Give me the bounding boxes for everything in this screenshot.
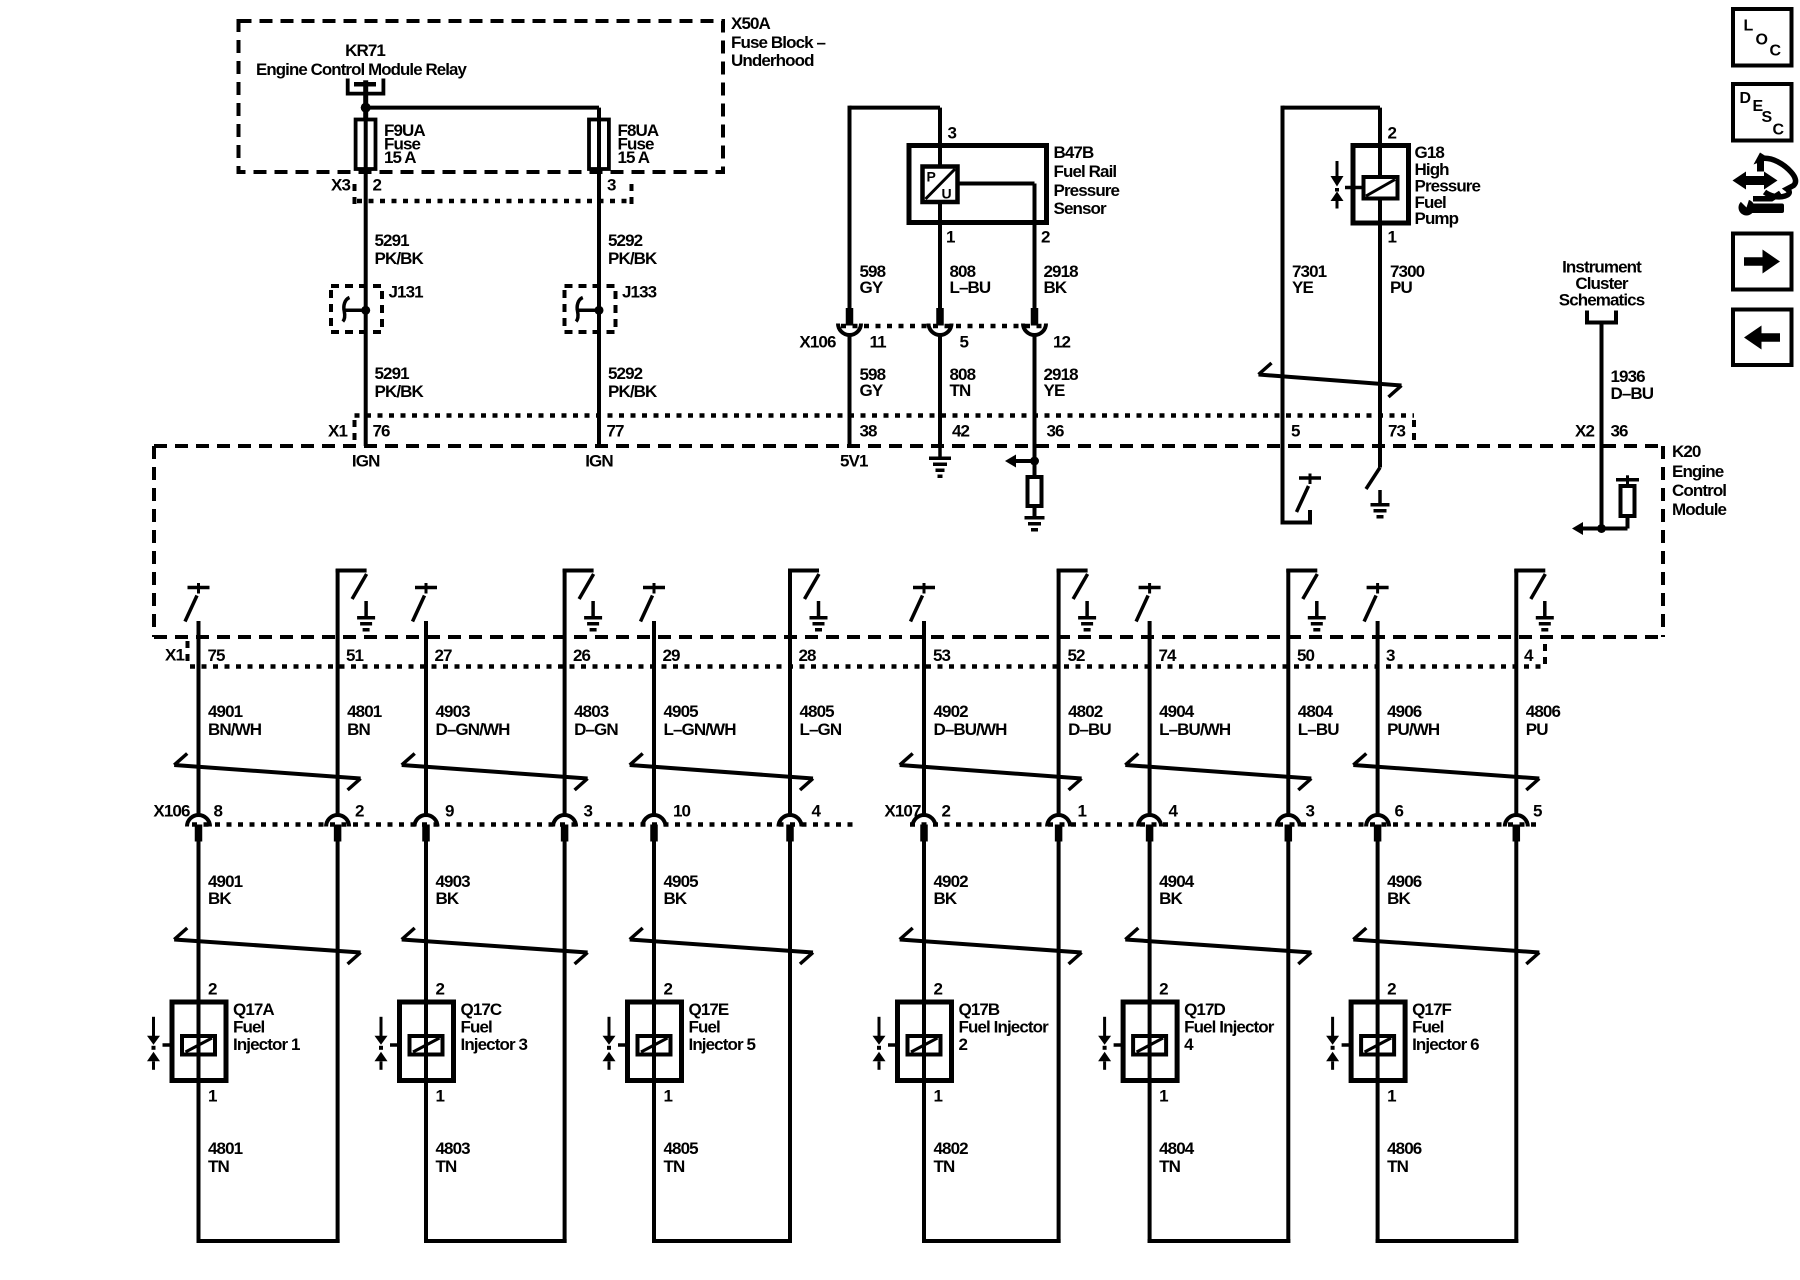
label 5V1 reference voltage <box>840 452 868 471</box>
svg-text:X106: X106 <box>153 801 190 820</box>
icon button LOC <box>1733 9 1792 66</box>
splice J133 <box>565 286 616 332</box>
icon vehicle data link (double arrow + outline + wrench) <box>1733 153 1796 216</box>
connector X3 row (dotted) <box>355 184 632 205</box>
wire pin 2 of pump <box>1378 108 1382 177</box>
svg-text:O: O <box>1756 32 1768 49</box>
svg-text:Fuel: Fuel <box>1412 1018 1444 1037</box>
svg-text:4805: 4805 <box>664 1139 699 1158</box>
relay KR71 Engine Control Module Relay - label <box>256 41 467 79</box>
svg-text:L–BU/WH: L–BU/WH <box>1159 720 1231 739</box>
wire 4803 TN long segment <box>563 842 567 1244</box>
svg-text:1: 1 <box>1159 1086 1168 1105</box>
svg-text:D–BU/WH: D–BU/WH <box>934 720 1008 739</box>
wire 808 TN segment <box>938 336 942 446</box>
off-page bracket <box>1587 311 1616 323</box>
label wire 808 L-BU <box>950 262 991 297</box>
svg-text:2: 2 <box>664 979 673 998</box>
pin 1 label (injector) <box>208 1086 217 1105</box>
wire 4802 TN from injector <box>922 1081 1061 1244</box>
fuse block X50A - Underhood (dashed outline) <box>239 21 724 172</box>
svg-text:2: 2 <box>208 979 217 998</box>
svg-text:Module: Module <box>1672 500 1727 519</box>
svg-text:Injector 6: Injector 6 <box>1412 1035 1479 1054</box>
crossed wires annotation (lower) <box>630 928 813 964</box>
label wire 4903 BK <box>436 872 471 908</box>
svg-text:2: 2 <box>1159 979 1168 998</box>
crossed wires annotation (lower) <box>402 928 588 964</box>
svg-text:Pressure: Pressure <box>1054 181 1120 200</box>
label wire 4801 TN <box>208 1139 243 1176</box>
svg-text:1: 1 <box>664 1086 673 1105</box>
label wire 4805 TN <box>664 1139 699 1176</box>
svg-text:75: 75 <box>208 646 226 665</box>
svg-text:Fuse Block –: Fuse Block – <box>731 33 826 52</box>
ECM injector return switch to ground above pin 51 <box>336 569 376 667</box>
pin 2 label (pump) <box>1388 123 1397 142</box>
svg-text:4804: 4804 <box>1159 1139 1195 1158</box>
connector X107 row (dotted) <box>910 822 1540 827</box>
svg-text:Control: Control <box>1672 481 1726 500</box>
svg-text:4806: 4806 <box>1387 1139 1422 1158</box>
svg-text:4802: 4802 <box>934 1139 969 1158</box>
pin 4 label <box>1169 801 1179 820</box>
label wire 598 GY (upper) <box>860 262 886 297</box>
label IGN (pin 76) <box>352 452 380 471</box>
svg-text:1: 1 <box>1388 227 1397 246</box>
label wire 4806 TN <box>1387 1139 1422 1176</box>
svg-text:15 A: 15 A <box>618 148 650 167</box>
injector Q17D pintle valve arrows <box>1098 1017 1111 1070</box>
svg-text:PU/WH: PU/WH <box>1387 720 1440 739</box>
svg-text:X1: X1 <box>328 421 347 440</box>
pin 5 label <box>960 332 969 351</box>
svg-text:Q17F: Q17F <box>1412 1000 1451 1019</box>
label wire 4803 TN <box>436 1139 471 1176</box>
svg-text:P: P <box>927 169 936 185</box>
injector Q17D (box) <box>1123 1002 1177 1081</box>
injector Q17C solenoid symbol <box>390 1036 443 1055</box>
svg-text:L–GN/WH: L–GN/WH <box>664 720 737 739</box>
svg-text:YE: YE <box>1044 381 1065 400</box>
svg-text:Schematics: Schematics <box>1559 291 1645 310</box>
sensor P/U transducer symbol <box>923 167 958 203</box>
svg-text:BK: BK <box>1387 889 1411 908</box>
pin 3 label <box>948 123 957 142</box>
svg-text:15 A: 15 A <box>384 148 416 167</box>
svg-text:5: 5 <box>960 332 969 351</box>
label wire 4906 BK <box>1387 872 1422 908</box>
label X1 (top) <box>328 421 347 440</box>
label Q17E Fuel Injector 5 <box>689 1000 756 1054</box>
crossed wires annotation (lower) <box>1125 928 1311 964</box>
svg-text:TN: TN <box>664 1157 685 1176</box>
pin 2 label <box>355 801 364 820</box>
wire 2918 YE segment <box>1033 336 1037 461</box>
ECM injector driver (high) above pin 3 <box>1364 583 1389 667</box>
svg-text:9: 9 <box>445 801 454 820</box>
pin 2 label (injector) <box>934 979 943 998</box>
svg-text:2: 2 <box>1041 227 1050 246</box>
svg-text:4: 4 <box>1524 646 1534 665</box>
svg-text:4802: 4802 <box>1068 702 1103 721</box>
injector Q17A solenoid symbol <box>163 1036 216 1055</box>
injector Q17F solenoid symbol <box>1342 1036 1395 1055</box>
svg-text:51: 51 <box>346 646 364 665</box>
pin 2 label (injector) <box>1387 979 1396 998</box>
svg-text:3: 3 <box>948 123 957 142</box>
svg-text:TN: TN <box>950 381 971 400</box>
wire 4905 L–GN/WH segment <box>652 667 656 816</box>
label Instrument Cluster Schematics (off-page reference) <box>1559 258 1645 310</box>
wire 4806 TN from injector <box>1376 1081 1519 1244</box>
ECM pump switch to ground at pin 73 <box>1366 446 1390 517</box>
pin 2 label (injector) <box>208 979 217 998</box>
injector Q17B (box) <box>898 1002 952 1081</box>
svg-text:TN: TN <box>1387 1157 1408 1176</box>
injector Q17A (box) <box>172 1002 226 1081</box>
svg-text:29: 29 <box>663 646 681 665</box>
ECM injector driver (high) above pin 53 <box>911 583 936 667</box>
svg-text:3: 3 <box>1306 801 1315 820</box>
svg-text:36: 36 <box>1047 421 1065 440</box>
svg-text:L: L <box>1744 18 1754 35</box>
label wire 4904 BK <box>1159 872 1195 908</box>
svg-text:Engine Control Module Relay: Engine Control Module Relay <box>256 60 467 79</box>
svg-text:IGN: IGN <box>585 452 613 471</box>
svg-text:BK: BK <box>1044 278 1068 297</box>
svg-text:2: 2 <box>934 979 943 998</box>
label wire 5292 PK/BK (lower) <box>608 364 658 401</box>
pull resistor at ECM pin 36 <box>1028 461 1042 516</box>
pin 3 label <box>1306 801 1315 820</box>
crossed wires annotation (upper) <box>900 754 1082 791</box>
pin 74 label (X1) <box>1159 646 1178 665</box>
svg-text:3: 3 <box>607 175 616 194</box>
icon button back arrow <box>1733 310 1792 366</box>
svg-text:5: 5 <box>1533 801 1542 820</box>
svg-text:BN: BN <box>347 720 370 739</box>
svg-text:IGN: IGN <box>352 452 380 471</box>
svg-text:D–GN: D–GN <box>574 720 618 739</box>
connector cavity pin 3 <box>553 815 576 842</box>
svg-text:Injector 3: Injector 3 <box>461 1035 528 1054</box>
connector cavity pin 2 <box>913 815 936 842</box>
svg-text:PK/BK: PK/BK <box>375 382 425 401</box>
pin 75 label (X1) <box>208 646 226 665</box>
svg-text:36: 36 <box>1611 421 1629 440</box>
svg-text:TN: TN <box>1159 1157 1180 1176</box>
label IGN (pin 77) <box>585 452 613 471</box>
crossed wires annotation (upper) <box>630 754 813 791</box>
injector Q17F (box) <box>1351 1002 1405 1081</box>
relay KR71 contact symbol <box>348 79 384 120</box>
injector Q17A pintle valve arrows <box>147 1017 160 1070</box>
wire 4803 TN from injector <box>424 1081 567 1244</box>
svg-text:27: 27 <box>435 646 453 665</box>
wire 598 top segment to sensor supply <box>850 106 941 308</box>
label wire 4801 BN <box>347 702 382 739</box>
connector X106 bottom row (dotted) <box>192 822 856 827</box>
injector Q17B solenoid symbol <box>888 1036 941 1055</box>
svg-text:D–BU: D–BU <box>1611 384 1654 403</box>
wire 2918 BK segment <box>1033 223 1037 309</box>
ECM input arrow at X2-36 <box>1572 522 1606 535</box>
svg-text:Q17C: Q17C <box>461 1000 502 1019</box>
connector pin cavity 5 <box>929 308 952 335</box>
crossed wires annotation (pump harness) <box>1259 363 1402 397</box>
wire - relay output to fuses (junction) <box>361 103 599 113</box>
connector cavity pin 4 <box>779 815 802 842</box>
svg-text:1: 1 <box>934 1086 943 1105</box>
svg-text:1: 1 <box>1387 1086 1396 1105</box>
label wire 2918 BK <box>1044 262 1079 297</box>
wire 4804 L–BU segment <box>1286 667 1290 816</box>
svg-text:D–GN/WH: D–GN/WH <box>436 720 511 739</box>
svg-text:PK/BK: PK/BK <box>375 249 425 268</box>
label J131 <box>389 282 424 301</box>
svg-text:KR71: KR71 <box>345 41 385 60</box>
svg-text:4803: 4803 <box>436 1139 471 1158</box>
svg-text:50: 50 <box>1297 646 1315 665</box>
pin 1 label <box>946 227 955 246</box>
wire 4804 TN from injector <box>1148 1081 1291 1244</box>
injector Q17C pintle valve arrows <box>375 1017 388 1070</box>
pin 10 label <box>673 801 691 820</box>
svg-text:4: 4 <box>812 801 822 820</box>
svg-text:X2: X2 <box>1575 421 1594 440</box>
pin 27 label (X1) <box>435 646 453 665</box>
svg-text:4902: 4902 <box>934 702 969 721</box>
injector Q17E pintle valve arrows <box>603 1017 616 1070</box>
svg-text:5292: 5292 <box>608 364 643 383</box>
sensor internal wire pins 1 and 2 <box>940 184 1035 223</box>
wire 4904 BK segment <box>1148 842 1152 1003</box>
svg-text:4906: 4906 <box>1387 702 1422 721</box>
svg-text:Fuel Rail: Fuel Rail <box>1054 162 1117 181</box>
pin 3 of X3 <box>607 175 616 194</box>
svg-text:1: 1 <box>436 1086 445 1105</box>
svg-text:TN: TN <box>208 1157 229 1176</box>
ECM injector return switch to ground above pin 26 <box>563 569 603 667</box>
svg-text:PK/BK: PK/BK <box>608 249 658 268</box>
pin 73 label (X1) <box>1388 421 1406 440</box>
label J133 <box>622 282 657 301</box>
connector pin cavity 12 <box>1023 308 1046 335</box>
icon button forward arrow <box>1733 234 1792 290</box>
label wire 4901 BN/WH <box>208 702 262 739</box>
wire 4806 TN long segment <box>1514 842 1518 1244</box>
connector pin cavity 11 <box>838 308 861 335</box>
svg-text:76: 76 <box>373 421 391 440</box>
svg-text:73: 73 <box>1388 421 1406 440</box>
crossed wires annotation (lower) <box>1353 928 1539 964</box>
sensor B47B Fuel Rail Pressure Sensor (box) <box>909 146 1047 223</box>
crossed wires annotation (lower) <box>900 928 1082 964</box>
wire 4906 PU/WH segment <box>1376 667 1380 816</box>
injector Q17B pintle valve arrows <box>873 1017 886 1070</box>
pin 3 label (X1) <box>1386 646 1395 665</box>
svg-text:4801: 4801 <box>208 1139 243 1158</box>
svg-text:BN/WH: BN/WH <box>208 720 262 739</box>
svg-text:C: C <box>1770 43 1782 60</box>
connector X1 top row (dotted) <box>355 416 1415 443</box>
wire 4906 BK segment <box>1376 842 1380 1003</box>
wire 4903 D–GN/WH segment <box>424 667 428 816</box>
svg-text:C: C <box>1773 122 1785 139</box>
svg-text:4901: 4901 <box>208 702 243 721</box>
svg-text:K20: K20 <box>1672 442 1701 461</box>
injector Q17D solenoid symbol <box>1114 1036 1167 1055</box>
wire 1936 D-BU <box>1600 323 1604 529</box>
svg-text:PU: PU <box>1390 278 1412 297</box>
ECM injector driver (high) above pin 27 <box>413 583 438 667</box>
label wire 4905 BK <box>664 872 699 908</box>
svg-text:Q17E: Q17E <box>689 1000 729 1019</box>
svg-text:GY: GY <box>860 278 884 297</box>
svg-text:Q17B: Q17B <box>959 1000 1000 1019</box>
pin 8 label <box>214 801 223 820</box>
wire 4901 BN/WH segment <box>197 667 201 816</box>
label wire 4805 L–GN <box>800 702 842 739</box>
pin 36 label <box>1047 421 1065 440</box>
svg-text:5: 5 <box>1291 421 1300 440</box>
label F9UA Fuse 15 A <box>384 121 425 167</box>
label wire 2918 YE <box>1044 365 1079 400</box>
svg-text:BK: BK <box>436 889 460 908</box>
svg-text:6: 6 <box>1395 801 1404 820</box>
svg-text:1: 1 <box>208 1086 217 1105</box>
pump solenoid coil symbol <box>1345 177 1398 199</box>
crossed wires annotation (upper) <box>402 754 588 791</box>
pin 42 label <box>952 421 970 440</box>
label B47B Fuel Rail Pressure Sensor <box>1054 143 1120 218</box>
svg-text:L–GN: L–GN <box>800 720 842 739</box>
pin 11 label <box>870 332 887 351</box>
svg-text:12: 12 <box>1053 332 1071 351</box>
svg-text:4801: 4801 <box>347 702 382 721</box>
svg-text:J131: J131 <box>389 282 424 301</box>
injector Q17C (box) <box>400 1002 454 1081</box>
label wire 4803 D–GN <box>574 702 618 739</box>
svg-text:5V1: 5V1 <box>840 452 868 471</box>
label X3 <box>331 175 350 194</box>
label wire 4804 TN <box>1159 1139 1195 1176</box>
crossed wires annotation (upper) <box>1353 754 1539 791</box>
svg-text:Underhood: Underhood <box>731 51 814 70</box>
svg-text:Fuel: Fuel <box>233 1018 265 1037</box>
pump valve arrows <box>1331 161 1344 209</box>
wire 5292 PK/BK upper segment <box>597 169 601 446</box>
svg-text:TN: TN <box>436 1157 457 1176</box>
svg-text:YE: YE <box>1292 278 1313 297</box>
svg-text:5291: 5291 <box>375 231 410 250</box>
ECM injector return switch to ground above pin 50 <box>1286 569 1326 667</box>
wire 4903 BK segment <box>424 842 428 1003</box>
fuse F9UA 15 A <box>356 120 376 170</box>
pin 53 label (X1) <box>933 646 951 665</box>
label wire 598 GY (lower) <box>860 365 886 400</box>
pin 28 label (X1) <box>799 646 817 665</box>
pin 2 label (injector) <box>664 979 673 998</box>
svg-text:PK/BK: PK/BK <box>608 382 658 401</box>
svg-text:Q17A: Q17A <box>233 1000 274 1019</box>
svg-text:2: 2 <box>373 175 382 194</box>
pin 1 label (injector) <box>1387 1086 1396 1105</box>
svg-text:Engine: Engine <box>1672 462 1724 481</box>
connector cavity pin 6 <box>1366 815 1389 842</box>
pin 12 label <box>1053 332 1071 351</box>
svg-text:5292: 5292 <box>608 231 643 250</box>
label wire 7300 PU <box>1390 262 1425 297</box>
label wire 4904 L–BU/WH <box>1159 702 1231 739</box>
label X107 <box>884 801 921 820</box>
crossed wires annotation (lower) <box>174 928 360 964</box>
pin 2 label (injector) <box>436 979 445 998</box>
module K20 Engine Control Module (dashed outline) <box>154 446 1663 637</box>
pin 1 label (injector) <box>934 1086 943 1105</box>
svg-text:J133: J133 <box>622 282 657 301</box>
label wire 808 TN <box>950 365 976 400</box>
svg-text:4805: 4805 <box>800 702 835 721</box>
wire 808 L-BU segment <box>938 223 942 309</box>
svg-text:L–BU: L–BU <box>950 278 991 297</box>
svg-text:8: 8 <box>214 801 223 820</box>
pin 1 label (injector) <box>1159 1086 1168 1105</box>
pin 1 label (injector) <box>436 1086 445 1105</box>
wire 4802 TN long segment <box>1057 842 1061 1244</box>
wire 5291 PK/BK upper segment <box>364 169 368 446</box>
pin 2 label (injector) <box>1159 979 1168 998</box>
svg-text:2: 2 <box>1387 979 1396 998</box>
label Q17F Fuel Injector 6 <box>1412 1000 1479 1054</box>
pin 50 label (X1) <box>1297 646 1315 665</box>
wire pin 3 of sensor <box>938 108 942 167</box>
svg-text:5291: 5291 <box>375 364 410 383</box>
pin 36 label (X2) <box>1611 421 1629 440</box>
svg-text:X106: X106 <box>799 332 836 351</box>
wire pin 1 of pump (7300 PU) <box>1378 199 1382 447</box>
crossed wires annotation (upper) <box>1125 754 1311 791</box>
svg-text:52: 52 <box>1068 646 1086 665</box>
label wire 4906 PU/WH <box>1387 702 1440 739</box>
svg-text:Injector 1: Injector 1 <box>233 1035 300 1054</box>
svg-text:Pump: Pump <box>1415 209 1459 228</box>
label X1 (bottom) <box>165 646 184 665</box>
pin 51 label (X1) <box>346 646 364 665</box>
wire 598 GY lower segment <box>848 336 852 446</box>
connector cavity pin 9 <box>415 815 438 842</box>
svg-text:GY: GY <box>860 381 884 400</box>
svg-text:28: 28 <box>799 646 817 665</box>
ECM pump control driver at pin 5 <box>1283 446 1322 523</box>
connector cavity pin 8 <box>187 815 210 842</box>
label wire 7301 YE <box>1292 262 1327 297</box>
ground under resistor (pin 36) <box>1025 511 1045 530</box>
label X50A Fuse Block - Underhood <box>731 14 826 70</box>
svg-text:TN: TN <box>934 1157 955 1176</box>
connector cavity pin 1 <box>1047 815 1070 842</box>
label wire 4901 BK <box>208 872 243 908</box>
svg-text:Fuel Injector: Fuel Injector <box>959 1018 1050 1037</box>
ECM injector driver (high) above pin 29 <box>641 583 666 667</box>
svg-text:Fuel: Fuel <box>461 1018 493 1037</box>
pin 6 label <box>1395 801 1404 820</box>
label X106 (top) <box>799 332 836 351</box>
svg-text:4804: 4804 <box>1298 702 1334 721</box>
svg-text:4: 4 <box>1169 801 1179 820</box>
connector cavity pin 10 <box>643 815 666 842</box>
